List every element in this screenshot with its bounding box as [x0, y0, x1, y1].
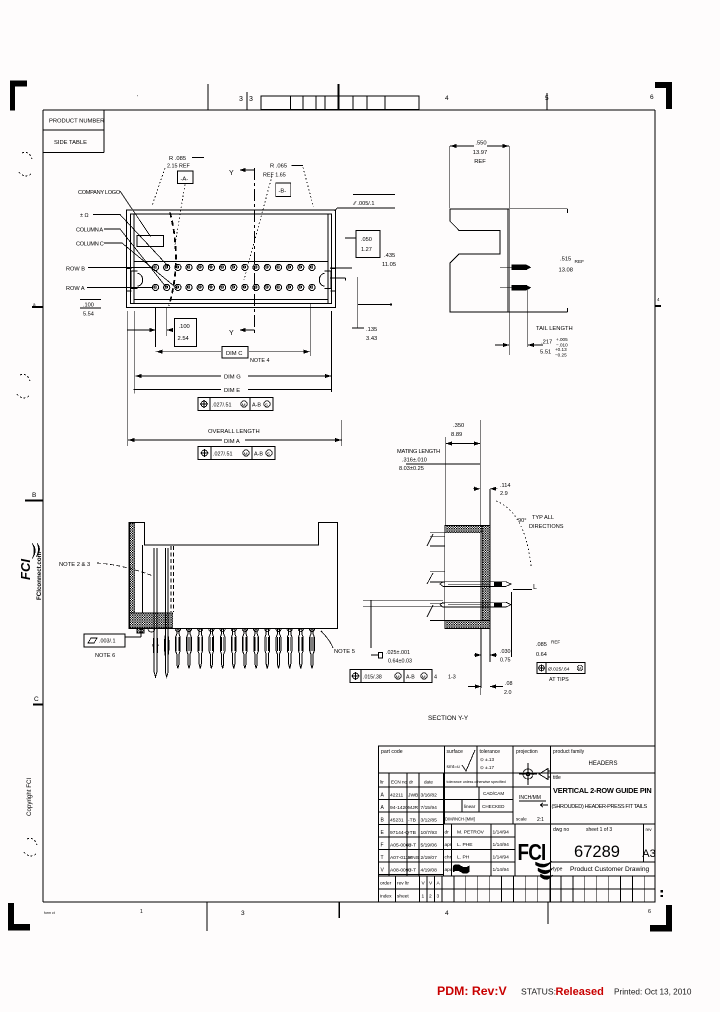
svg-text:REF 1.65: REF 1.65	[263, 173, 286, 179]
svg-text:COLUMN C: COLUMN C	[76, 242, 104, 248]
svg-text:.100: .100	[83, 303, 94, 309]
position FCF at tips (left)	[350, 670, 432, 683]
svg-text:67289: 67289	[574, 843, 620, 861]
svg-text:ECN no: ECN no	[391, 780, 408, 785]
svg-text:dwg no: dwg no	[553, 827, 569, 833]
svg-text:5/19/06: 5/19/06	[421, 842, 438, 848]
svg-text:MJR: MJR	[408, 805, 419, 811]
svg-text:L. PH: L. PH	[457, 855, 470, 861]
svg-text:CAD/CAM: CAD/CAM	[483, 791, 504, 796]
section view centerline	[479, 420, 481, 695]
corner trim mark top-left	[10, 81, 27, 87]
svg-text:1/14/94: 1/14/94	[493, 842, 510, 848]
svg-text:.435: .435	[384, 253, 395, 259]
svg-text:1: 1	[422, 894, 425, 900]
pin row B	[152, 264, 158, 270]
svg-text:NOTE 2 & 3: NOTE 2 & 3	[59, 562, 90, 568]
svg-text:2.0: 2.0	[504, 690, 512, 696]
svg-text:8.03±0.25: 8.03±0.25	[399, 466, 424, 472]
revision table grid	[388, 773, 390, 876]
svg-text:REF: REF	[575, 259, 585, 265]
svg-text:U-T: U-T	[408, 867, 416, 873]
svg-text:U-T: U-T	[408, 842, 416, 848]
svg-text:+0.13: +0.13	[555, 347, 567, 352]
title block header row	[379, 772, 656, 774]
svg-text:-TB: -TB	[408, 830, 416, 836]
svg-text:97144-Q: 97144-Q	[390, 830, 409, 836]
front view connector body outer	[127, 210, 336, 308]
svg-text:Released: Released	[556, 986, 604, 998]
svg-text:3: 3	[249, 96, 253, 103]
svg-text:TAIL LENGTH: TAIL LENGTH	[536, 326, 573, 332]
svg-text:sheet 1 of 3: sheet 1 of 3	[586, 827, 612, 833]
svg-text:45231: 45231	[390, 817, 404, 823]
section pin upper	[440, 582, 511, 587]
svg-text:∕∕ .005/.1: ∕∕ .005/.1	[352, 201, 375, 207]
svg-text:DIM E: DIM E	[224, 388, 240, 394]
svg-text:1/14/94: 1/14/94	[493, 855, 510, 861]
svg-text:.515: .515	[560, 257, 571, 263]
left margin FCI logo (rotated)	[18, 543, 40, 580]
svg-text:3: 3	[241, 910, 245, 917]
svg-text:ROW B: ROW B	[66, 267, 85, 273]
svg-text:2.54: 2.54	[178, 336, 190, 342]
svg-text:11.05: 11.05	[382, 262, 396, 268]
svg-text:A-B: A-B	[406, 675, 415, 681]
svg-text:M: M	[422, 674, 426, 679]
svg-text:L: L	[533, 584, 537, 591]
svg-text:Copyright FCI: Copyright FCI	[26, 778, 33, 816]
front view company logo recess	[137, 236, 164, 247]
svg-text:AT TIPS: AT TIPS	[549, 677, 569, 683]
dim .435 / 11.05	[330, 267, 352, 269]
side view body profile	[450, 209, 509, 312]
svg-text:A3: A3	[642, 848, 655, 860]
svg-text:REF: REF	[474, 159, 486, 165]
svg-text:FCI: FCI	[18, 559, 33, 580]
parallelism FCF .003/.1 with NOTE 6	[84, 634, 125, 647]
dim .025 sq tail with leader square	[370, 600, 372, 648]
svg-text:.350: .350	[453, 423, 464, 429]
section shroud wall broken edges	[430, 532, 445, 534]
svg-text:3: 3	[239, 96, 243, 103]
side view press-fit pin upper	[500, 266, 512, 268]
svg-text:94-1420: 94-1420	[390, 805, 408, 811]
svg-text:3: 3	[437, 894, 440, 900]
svg-text:4: 4	[445, 95, 449, 102]
svg-text:.003/.1: .003/.1	[99, 639, 116, 645]
dim .135 / 3.43	[357, 277, 359, 328]
svg-text:COLUMN A: COLUMN A	[76, 228, 103, 234]
position FCF for overall length	[198, 447, 275, 460]
dim DIM G	[134, 311, 136, 394]
svg-text:product family: product family	[553, 749, 585, 755]
elevation guide pin 1 and 2 (long)	[153, 548, 155, 672]
svg-text:6: 6	[648, 909, 651, 915]
svg-text:1/14/94: 1/14/94	[493, 830, 510, 836]
dim .08/2.0 bottom	[475, 684, 481, 688]
dim DIM C with NOTE 4	[309, 303, 311, 356]
svg-text:(SHROUDED) HEADER-PRESS FIT TA: (SHROUDED) HEADER-PRESS FIT TAILS	[552, 804, 648, 810]
svg-text:STATUS:: STATUS:	[521, 987, 556, 997]
svg-text:4: 4	[445, 910, 449, 917]
svg-text:.025±.001: .025±.001	[386, 650, 410, 656]
corner trim mark bottom-right	[650, 925, 672, 932]
svg-text:Y: Y	[229, 330, 234, 337]
svg-text:2.9: 2.9	[500, 491, 508, 497]
svg-text:SECTION Y-Y: SECTION Y-Y	[428, 715, 469, 722]
boxed dim .050/1.27	[356, 231, 380, 258]
elevation bottom-left hatch block	[130, 613, 173, 628]
svg-text:2: 2	[429, 894, 432, 900]
svg-text:rev: rev	[646, 827, 653, 832]
left margin Copyright FCI (rotated)	[26, 778, 33, 816]
svg-text:2:1: 2:1	[537, 817, 544, 823]
projection lines to elevation view	[363, 599, 443, 601]
svg-text:PDM: Rev:V: PDM: Rev:V	[437, 984, 507, 998]
section body: right hatched wall	[482, 526, 490, 629]
svg-text:part code: part code	[381, 749, 403, 755]
svg-text:F: F	[381, 842, 384, 848]
svg-text:MNS: MNS	[408, 855, 420, 861]
corner trim mark bottom-left	[8, 924, 30, 931]
front view right polarization cutout	[325, 271, 332, 289]
svg-text:tolerance unless otherwise spe: tolerance unless otherwise specified	[447, 780, 506, 784]
svg-text:6: 6	[650, 94, 654, 101]
pin row A	[152, 284, 158, 290]
svg-text:10/7/93: 10/7/93	[421, 830, 438, 836]
svg-text:.030: .030	[500, 649, 511, 655]
svg-text:': '	[137, 95, 138, 101]
order/index grid	[379, 875, 656, 877]
front view left polarization cutout	[131, 271, 138, 289]
dim OVERALL LENGTH / DIM A	[341, 420, 343, 446]
svg-text:.217: .217	[541, 340, 552, 346]
position FCF at tips (right)	[537, 663, 585, 674]
svg-text:JWB: JWB	[408, 792, 418, 798]
elevation view body outline	[129, 523, 337, 629]
svg-text:INCH/MM: INCH/MM	[519, 795, 541, 801]
svg-text:L. PHE: L. PHE	[457, 842, 473, 848]
svg-text:.027/.51: .027/.51	[213, 452, 232, 458]
FCI logo in title block	[518, 840, 553, 879]
svg-text:.015/.38: .015/.38	[363, 675, 382, 681]
svg-text:COMPANY LOGO: COMPANY LOGO	[78, 190, 121, 196]
svg-text:MATING LENGTH: MATING LENGTH	[397, 449, 440, 455]
svg-text:NOTE 6: NOTE 6	[95, 653, 115, 659]
side view press-fit pin lower	[500, 287, 512, 289]
svg-text:.085: .085	[536, 642, 547, 648]
svg-text:1.27: 1.27	[361, 247, 372, 253]
section body: top hatched bar	[445, 526, 482, 533]
svg-text:OVERALL LENGTH: OVERALL LENGTH	[208, 429, 260, 435]
svg-text:R .065: R .065	[270, 164, 287, 170]
svg-text:PRODUCT NUMBER: PRODUCT NUMBER	[49, 119, 104, 125]
svg-text:Y: Y	[229, 170, 234, 177]
svg-text:± Ω: ± Ω	[80, 213, 89, 219]
third angle projection symbol	[523, 769, 533, 779]
svg-text:M: M	[244, 451, 248, 456]
svg-text:-A-: -A-	[181, 177, 189, 183]
svg-text:NOTE 5: NOTE 5	[334, 649, 355, 655]
bottom border zone ticks and labels	[206, 902, 208, 931]
svg-text:M: M	[396, 674, 400, 679]
svg-text:4/19/08: 4/19/08	[421, 867, 438, 873]
svg-text:ltr: ltr	[380, 780, 384, 785]
svg-text:FCI: FCI	[518, 840, 546, 865]
dashed key arc over pin columns 2-3	[169, 213, 176, 306]
left margin FCIconnect.com text (rotated)	[36, 551, 43, 600]
svg-text:surface: surface	[447, 749, 464, 755]
svg-text:M. PETROV: M. PETROV	[457, 830, 485, 836]
svg-text:S: S	[265, 402, 268, 407]
svg-text:form ct: form ct	[44, 911, 55, 915]
svg-text:5.51: 5.51	[540, 350, 551, 356]
svg-text:+.005: +.005	[556, 337, 568, 342]
svg-text:sheet: sheet	[397, 894, 409, 900]
svg-text:DIRECTIONS: DIRECTIONS	[529, 524, 564, 530]
elevation guide pin hidden dashes	[170, 546, 172, 612]
svg-text:.100: .100	[179, 324, 190, 330]
svg-text:Ø.025/.64: Ø.025/.64	[548, 667, 570, 673]
svg-text:type: type	[553, 867, 563, 873]
svg-text:C: C	[34, 696, 39, 703]
revision table header	[379, 786, 551, 788]
dim .114/2.9	[473, 488, 480, 490]
svg-text:⊙ ±.13: ⊙ ±.13	[480, 757, 494, 762]
L corner mark at pin tip	[513, 589, 532, 591]
svg-text:order: order	[380, 881, 392, 887]
section body: bottom hatched bar	[445, 621, 490, 629]
elevation press-fit tails row	[176, 629, 181, 669]
svg-text:T: T	[381, 855, 384, 861]
svg-text:Printed: Oct 13, 2010: Printed: Oct 13, 2010	[614, 988, 692, 997]
svg-text:projection: projection	[516, 749, 538, 755]
svg-text:0.75: 0.75	[500, 658, 511, 664]
svg-text:dr: dr	[409, 780, 414, 785]
side view top/bottom extension lines	[509, 208, 567, 210]
parallelism callout .005/.1 top right	[353, 194, 395, 196]
svg-text:7/15/94: 7/15/94	[421, 805, 438, 811]
svg-text:SIDE TABLE: SIDE TABLE	[54, 140, 87, 146]
svg-text:HEADERS: HEADERS	[588, 761, 617, 767]
svg-text:M: M	[242, 402, 246, 407]
section mating face extension	[406, 463, 480, 465]
approval signature blob	[453, 865, 469, 874]
svg-text:dr: dr	[445, 830, 450, 836]
svg-text:chr: chr	[445, 855, 452, 861]
svg-text:REF: REF	[551, 640, 560, 645]
svg-text:13.97: 13.97	[473, 150, 488, 156]
svg-text:-TB: -TB	[408, 817, 416, 823]
svg-text:index: index	[380, 894, 392, 900]
svg-text:⊙ ±.17: ⊙ ±.17	[480, 765, 494, 770]
svg-text:DIM G: DIM G	[224, 375, 241, 381]
approval rows	[451, 824, 453, 876]
section pin lower	[440, 602, 511, 607]
svg-text:DIM/INCH·[MM]: DIM/INCH·[MM]	[445, 817, 475, 822]
svg-text:DIM C: DIM C	[226, 351, 242, 357]
svg-text:apr: apr	[445, 842, 452, 848]
section line Y-Y vertical centerline	[254, 168, 256, 333]
title block outer	[379, 746, 656, 902]
svg-text:ROW A: ROW A	[66, 286, 85, 292]
svg-text:3/16/82: 3/16/82	[421, 792, 438, 798]
svg-text:3.43: 3.43	[366, 336, 377, 342]
svg-text:linear: linear	[464, 804, 476, 809]
svg-text:1: 1	[140, 909, 143, 915]
svg-text:5.54: 5.54	[83, 312, 94, 318]
dim TAIL LENGTH	[508, 312, 510, 355]
svg-text:3/12/85: 3/12/85	[421, 817, 438, 823]
product number box	[43, 129, 104, 131]
svg-text:.114: .114	[500, 483, 510, 489]
svg-text:.050: .050	[361, 237, 372, 243]
svg-text:R .085: R .085	[169, 156, 186, 162]
svg-text:A-B: A-B	[254, 452, 263, 458]
svg-text:FCIconnect.com: FCIconnect.com	[36, 551, 43, 600]
dim .100/2.54 left of view	[80, 299, 101, 301]
svg-text:−0.25: −0.25	[555, 353, 567, 358]
tolerance spec cells	[444, 799, 514, 801]
drawing frame border	[43, 109, 655, 111]
dim .100 / 2.54 between columns 1-2	[155, 308, 157, 347]
corner trim mark top-right	[655, 82, 672, 88]
svg-text:TYP ALL: TYP ALL	[532, 515, 554, 521]
svg-text:2.15 REF: 2.15 REF	[167, 164, 190, 170]
svg-text:DIM A: DIM A	[224, 439, 240, 445]
svg-text:.027/.51: .027/.51	[212, 403, 231, 409]
svg-text:2/19/07: 2/19/07	[421, 855, 438, 861]
svg-text:A-B: A-B	[252, 403, 261, 409]
svg-text:S: S	[267, 451, 270, 456]
svg-text:1/14/94: 1/14/94	[493, 867, 510, 873]
svg-text:CHECKED: CHECKED	[482, 804, 505, 809]
elevation pin shoulders	[175, 629, 180, 632]
svg-text:-B-: -B-	[279, 189, 287, 195]
svg-text:M: M	[578, 666, 582, 671]
front view cavity lines	[134, 261, 328, 263]
svg-text:rev ltr: rev ltr	[397, 881, 409, 887]
micro scale bar	[261, 96, 419, 110]
svg-text:NOTE 4: NOTE 4	[250, 358, 269, 364]
svg-text:.08: .08	[505, 681, 513, 687]
svg-text:.135: .135	[366, 327, 377, 333]
svg-text:42211: 42211	[390, 792, 404, 798]
svg-text:smt=u: smt=u	[447, 764, 461, 770]
svg-text:title: title	[553, 775, 561, 781]
top border zone ticks and labels	[207, 84, 209, 110]
svg-text:scale: scale	[516, 817, 527, 822]
svg-text:1-3: 1-3	[448, 675, 456, 681]
elevation feet	[137, 629, 144, 634]
svg-text:.550: .550	[475, 141, 486, 147]
dim DIM E	[126, 311, 128, 446]
svg-text:4: 4	[434, 675, 437, 681]
svg-text:tolerance: tolerance	[480, 749, 501, 755]
svg-text:0.64±0.03: 0.64±0.03	[388, 659, 412, 665]
svg-text:0.64: 0.64	[536, 652, 547, 658]
svg-text:13.08: 13.08	[559, 268, 574, 274]
left border zone letters	[22, 152, 32, 159]
svg-text:date: date	[424, 780, 433, 785]
position FCF for DIM E	[198, 398, 273, 411]
front view connector body inner wall	[131, 214, 332, 304]
svg-text:VERTICAL 2-ROW GUIDE PIN: VERTICAL 2-ROW GUIDE PIN	[553, 786, 652, 795]
dim .030/0.75	[480, 629, 482, 688]
svg-text:B: B	[32, 492, 36, 499]
svg-text:.316±.010: .316±.010	[402, 458, 427, 464]
svg-text:8.89: 8.89	[451, 432, 462, 438]
side table box	[43, 152, 104, 154]
elevation left wall hatch	[130, 523, 135, 613]
svg-text:apd: apd	[445, 867, 453, 873]
svg-text:Product Customer Drawing: Product Customer Drawing	[570, 866, 649, 873]
